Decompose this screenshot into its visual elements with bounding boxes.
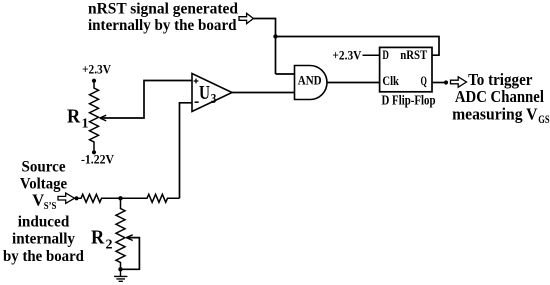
svg-text:D Flip-Flop: D Flip-Flop [382,92,436,107]
svg-text:1: 1 [82,116,89,131]
svg-text:GS: GS [538,114,549,126]
net label: Source Voltage VS'S induced internally by the board [3,158,84,264]
hollow arrow: Q output to ADC [451,77,467,87]
pin label nRST [400,48,428,62]
svg-text:V: V [32,191,44,210]
svg-text:D: D [382,48,389,62]
svg-text:Clk: Clk [382,73,399,88]
value label +2.3V (D input) [332,49,361,63]
svg-text:nRST: nRST [400,48,428,62]
svg-text:AND: AND [298,74,322,88]
node: nRST junction [273,34,277,38]
op-amp U1 comparator U3 body [192,74,232,112]
wiper arrow R1 [100,115,106,121]
node: Q output terminal [444,80,448,84]
wire: nRST drop to AND gate input A [276,73,296,75]
op-amp - input marker [195,101,199,103]
svg-text:induced: induced [18,214,70,231]
pin label D [382,48,389,62]
resistor R1 (potentiometer body) [90,81,99,153]
label D Flip-Flop [382,92,436,107]
wire: op-amp output to AND gate input B [232,92,295,94]
wire: AND output to flip-flop Clk pin [327,82,380,84]
ground [114,269,127,281]
wire: flip-flop Q output [432,82,448,84]
op-amp + input marker [194,79,199,84]
pin label Q [421,73,427,88]
svg-text:Source: Source [21,158,65,175]
label AND [298,74,322,88]
svg-text:Q: Q [421,73,427,88]
svg-text:R: R [67,107,81,128]
label R1 [67,107,89,132]
wiper arrow R2 [126,235,132,241]
resistor (series, left) [75,194,121,202]
node: source input terminal [74,196,78,200]
node: R2 bottom terminal [118,267,122,271]
wire: R2 wiper tied to bottom terminal [121,238,140,270]
svg-text:-1.22V: -1.22V [81,153,114,167]
wire: nRST arrow to vertical drop [253,19,275,75]
svg-text:+2.3V: +2.3V [82,62,111,76]
label U3 [199,82,216,107]
D flip-flop U4 body [380,47,432,91]
svg-text:R: R [91,228,105,249]
resistor (series, right) [121,194,180,202]
svg-text:internally by the board: internally by the board [88,17,237,34]
label R2 [91,228,113,253]
value label +2.3V (R1 top) [82,62,111,76]
node: divider junction [118,196,122,200]
wire: R1 wiper to op-amp + input [100,81,192,119]
svg-text:2: 2 [106,237,113,252]
svg-text:3: 3 [211,92,217,107]
svg-text:internally: internally [12,230,75,247]
wire: junction to op-amp - input [180,103,193,199]
wire: +2.3V to flip-flop D pin [363,54,380,56]
svg-text:S’S: S’S [44,200,57,212]
svg-text:+2.3V: +2.3V [332,49,361,63]
net label: To trigger ADC Channel measuring VGS [452,70,550,126]
pin label Clk [382,73,399,88]
node: R1 bottom terminal [92,150,96,154]
svg-text:U: U [199,82,210,104]
AND gate U2 body [295,66,327,100]
node: R1 top terminal [92,79,96,83]
value label -1.22V (R1 bottom) [81,153,114,167]
hollow arrow: source voltage input [58,193,75,203]
hollow arrow: nRST input [239,13,253,23]
wire: nRST junction to flip-flop nRST pin [276,37,440,56]
resistor R2 (potentiometer body) [116,198,125,269]
svg-text:by the board: by the board [3,248,84,265]
svg-text:measuring V: measuring V [452,104,537,123]
svg-text:nRST signal generated: nRST signal generated [88,0,238,17]
net label: nRST signal generated internally by the board [88,0,238,34]
